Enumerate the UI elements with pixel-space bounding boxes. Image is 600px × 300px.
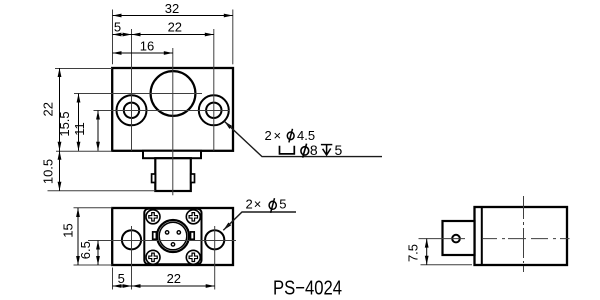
svg-text:4.5: 4.5 <box>297 128 315 143</box>
big circle phi12 <box>151 71 196 116</box>
XLR pin 2 <box>177 231 180 234</box>
extension line connector bottom <box>48 190 156 192</box>
body outline side view <box>475 207 568 265</box>
svg-text:×: × <box>254 197 262 212</box>
leader phi5 line <box>223 212 296 230</box>
left hole phi4.5 <box>124 103 139 118</box>
connector side view <box>443 221 475 255</box>
depth symbol <box>321 145 332 155</box>
counterbore symbol <box>280 146 295 154</box>
hole phi5 left <box>122 230 141 249</box>
XLR pin 3 <box>171 243 174 246</box>
extension line right hole vertical <box>214 226 216 290</box>
dimension 15.5 line <box>78 94 80 151</box>
XLR connector inner ring <box>159 222 187 250</box>
centerline holes horizontal <box>94 110 230 112</box>
XLR lug right <box>191 232 195 239</box>
left hole counterbore phi8 <box>117 95 147 125</box>
extension line body top left <box>55 68 112 70</box>
dimension 15 line <box>77 208 79 265</box>
dimension 32 line <box>113 15 233 17</box>
dimension 6.5 line <box>97 241 99 266</box>
hole phi5 right <box>205 230 224 249</box>
leader phi4.5 arrow <box>224 121 232 129</box>
centerline vertical side view <box>523 196 525 272</box>
connector right lug <box>191 174 195 183</box>
XLR pin 1 <box>165 231 168 234</box>
extension line right edge top <box>232 10 234 65</box>
connector left lug <box>152 174 156 183</box>
dimension 5 line (top) <box>113 34 132 36</box>
svg-text:5: 5 <box>335 142 343 158</box>
svg-text:5: 5 <box>114 19 121 34</box>
centerline left hole vertical <box>131 29 133 151</box>
dimension 7.5 line <box>426 239 428 265</box>
svg-text:2: 2 <box>265 128 272 143</box>
svg-text:15.5: 15.5 <box>57 111 72 136</box>
svg-text:7.5: 7.5 <box>405 244 420 262</box>
extension line body top left (bottom view) <box>74 207 113 209</box>
svg-text:32: 32 <box>165 1 179 16</box>
svg-text:PS−4024: PS−4024 <box>273 277 342 300</box>
extension line left hole vertical <box>131 226 133 290</box>
connector flange front view <box>143 151 201 158</box>
screw bottom-left <box>146 250 160 264</box>
connector body front view <box>155 158 191 191</box>
svg-text:22: 22 <box>167 271 181 286</box>
right hole counterbore phi8 <box>199 95 229 125</box>
XLR connector outer ring <box>157 220 189 252</box>
svg-text:5: 5 <box>279 197 286 212</box>
dimension 22 line (top) <box>132 34 214 36</box>
centerline middle vertical <box>172 48 174 195</box>
screw top-left <box>146 210 160 224</box>
extension line body bottom left <box>56 150 112 152</box>
screw bottom-right <box>186 250 200 264</box>
extension line left edge top <box>112 10 114 65</box>
extension line body bottom left (bottom view) <box>74 264 113 266</box>
svg-text:8: 8 <box>310 142 318 158</box>
XLR lug left <box>153 232 157 239</box>
svg-text:5: 5 <box>118 271 125 286</box>
centerline horizontal side view <box>419 238 570 240</box>
svg-text:15: 15 <box>61 223 76 237</box>
svg-text:6.5: 6.5 <box>78 241 93 259</box>
leader phi4.5 line <box>224 121 382 156</box>
phi symbol 5 <box>269 198 276 213</box>
screw top-right <box>186 210 200 224</box>
right hole phi4.5 <box>206 103 221 118</box>
svg-text:22: 22 <box>168 19 182 34</box>
svg-text:22: 22 <box>41 102 56 116</box>
extension line connector bottom side view <box>421 264 473 266</box>
svg-text:10.5: 10.5 <box>40 159 55 184</box>
flange edge line <box>481 207 483 265</box>
dimension 22 line (bottom) <box>132 285 215 287</box>
centerline right hole vertical <box>213 29 215 151</box>
centerline bottom view horizontal <box>88 240 236 242</box>
leader phi5 arrow <box>223 223 231 231</box>
dimension 5 line (bottom) <box>113 285 132 287</box>
dimension 16 line <box>113 52 173 54</box>
svg-text:2: 2 <box>246 197 253 212</box>
dimension 22 left vertical line <box>59 68 61 151</box>
dimension 10.5 line <box>59 151 61 191</box>
connector hole side view <box>452 235 460 243</box>
connector mount plate <box>144 209 201 264</box>
phi symbol 8 <box>301 144 309 158</box>
body outline front view <box>112 68 233 151</box>
centerline big circle horizontal <box>74 93 202 95</box>
dimension 11 line <box>97 111 99 151</box>
extension line body left bottom <box>112 268 114 290</box>
svg-text:×: × <box>274 128 282 143</box>
svg-text:16: 16 <box>140 38 154 53</box>
body outline bottom view <box>112 208 233 265</box>
svg-text:11: 11 <box>72 122 87 136</box>
phi symbol 4.5 <box>287 129 294 143</box>
